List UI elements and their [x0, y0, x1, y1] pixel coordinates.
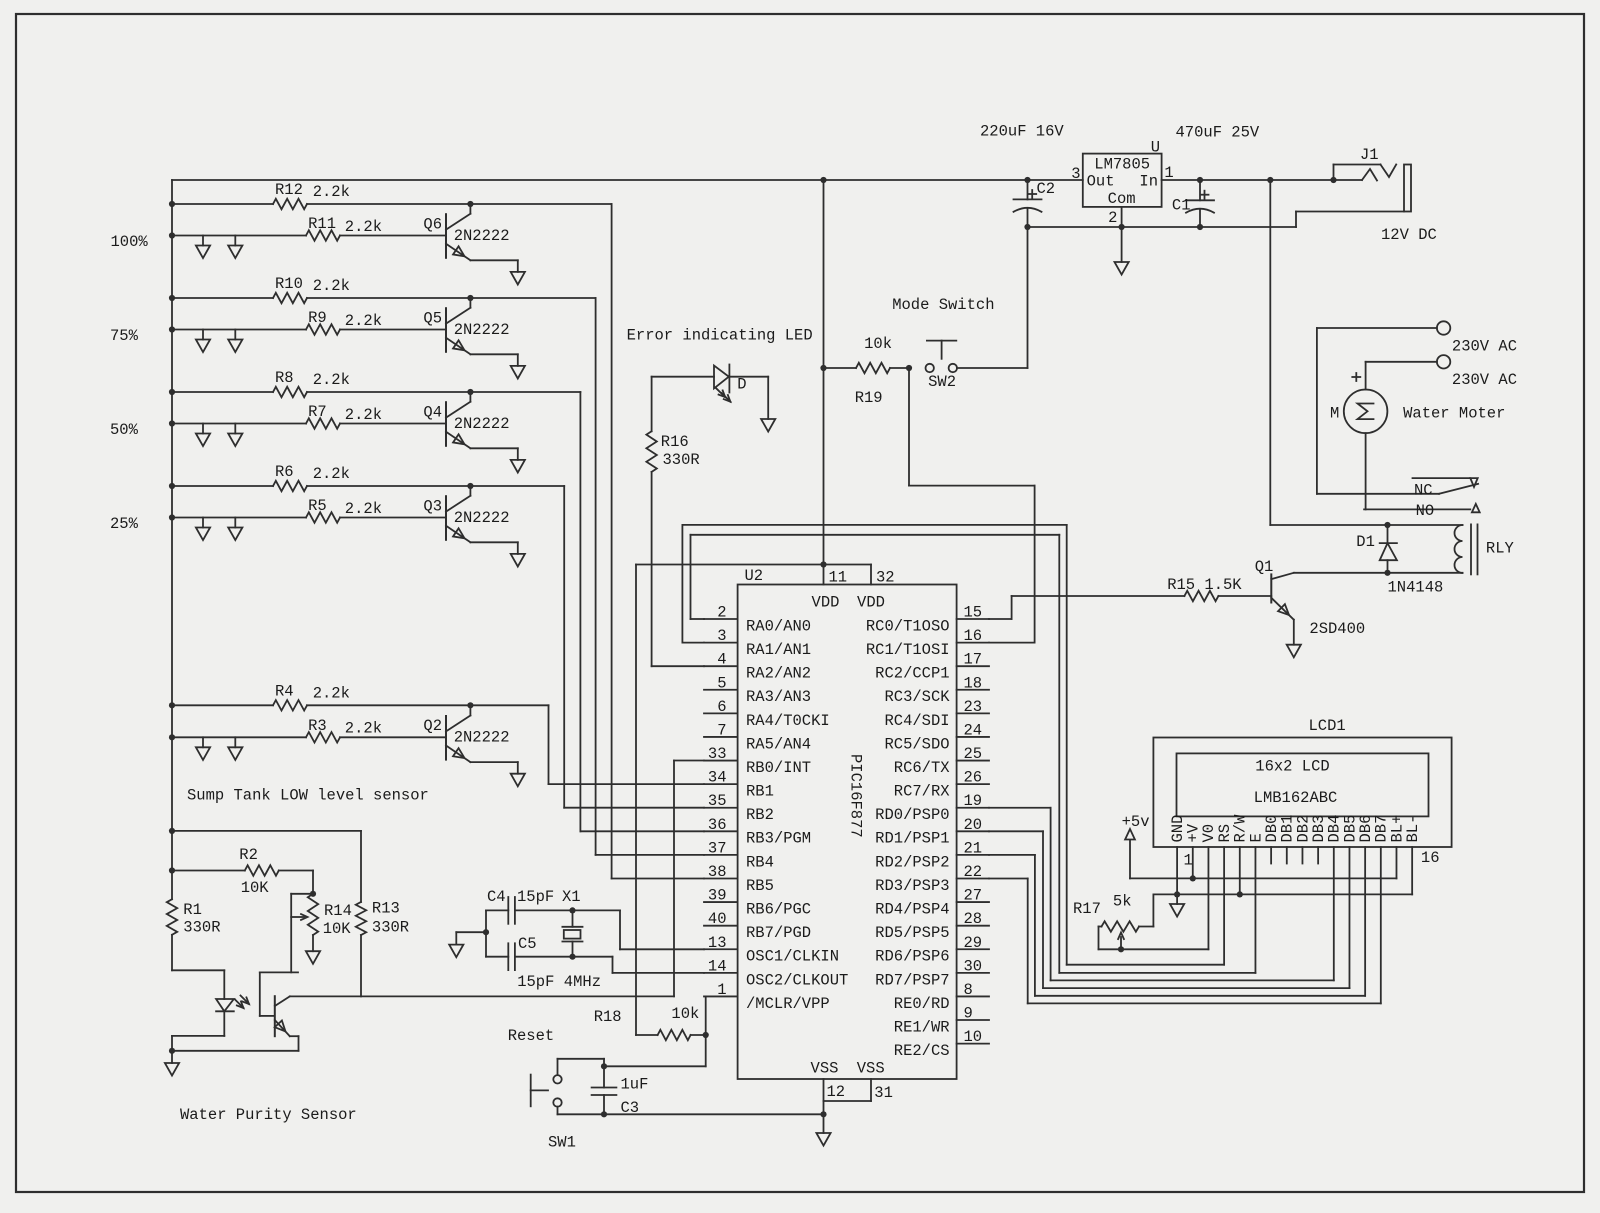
svg-text:31: 31: [874, 1084, 893, 1102]
svg-text:RC2/CCP1: RC2/CCP1: [875, 665, 949, 683]
svg-text:19: 19: [964, 792, 983, 810]
svg-text:16: 16: [1421, 849, 1440, 867]
svg-text:Error indicating LED: Error indicating LED: [627, 327, 813, 345]
svg-text:28: 28: [964, 910, 983, 928]
svg-text:10: 10: [964, 1028, 983, 1046]
svg-text:12: 12: [827, 1083, 846, 1101]
svg-text:RA0/AN0: RA0/AN0: [746, 617, 811, 635]
svg-text:2.2k: 2.2k: [313, 277, 350, 295]
svg-text:15pF: 15pF: [517, 888, 554, 906]
svg-text:U2: U2: [745, 567, 764, 585]
svg-text:RC4/SDI: RC4/SDI: [884, 712, 949, 730]
svg-text:RC5/SDO: RC5/SDO: [884, 735, 949, 753]
svg-text:U: U: [1151, 139, 1160, 157]
svg-text:12V DC: 12V DC: [1381, 226, 1437, 244]
svg-text:J1: J1: [1360, 146, 1379, 164]
svg-text:RD7/PSP7: RD7/PSP7: [875, 971, 949, 989]
svg-text:R5: R5: [308, 497, 327, 515]
svg-text:75%: 75%: [110, 327, 139, 345]
svg-text:OSC2/CLKOUT: OSC2/CLKOUT: [746, 971, 848, 989]
svg-text:36: 36: [708, 816, 727, 834]
svg-text:230V AC: 230V AC: [1452, 337, 1517, 355]
svg-text:Sump Tank LOW level sensor: Sump Tank LOW level sensor: [187, 787, 429, 805]
svg-text:Reset: Reset: [508, 1027, 555, 1045]
svg-text:R4: R4: [275, 683, 294, 701]
svg-text:50%: 50%: [110, 421, 139, 439]
svg-text:RD1/PSP1: RD1/PSP1: [875, 830, 949, 848]
svg-text:220uF 16V: 220uF 16V: [980, 123, 1064, 141]
svg-text:RB4: RB4: [746, 853, 774, 871]
svg-text:C1: C1: [1172, 197, 1191, 215]
svg-text:1: 1: [1164, 164, 1173, 182]
svg-text:VDD: VDD: [857, 593, 885, 611]
svg-text:SW2: SW2: [928, 373, 956, 391]
svg-text:27: 27: [964, 887, 983, 905]
svg-text:2.2k: 2.2k: [313, 465, 350, 483]
svg-text:In: In: [1139, 172, 1158, 190]
svg-text:230V AC: 230V AC: [1452, 371, 1517, 389]
svg-text:M: M: [1330, 405, 1339, 423]
svg-text:2N2222: 2N2222: [454, 415, 510, 433]
svg-text:1: 1: [1184, 852, 1193, 870]
svg-text:10k: 10k: [671, 1005, 699, 1023]
svg-text:16: 16: [964, 627, 983, 645]
svg-text:C4: C4: [487, 888, 506, 906]
svg-text:D1: D1: [1356, 533, 1375, 551]
svg-text:330R: 330R: [663, 451, 700, 469]
svg-text:2N2222: 2N2222: [454, 729, 510, 747]
svg-text:RE1/WR: RE1/WR: [894, 1018, 950, 1036]
svg-text:40: 40: [708, 910, 727, 928]
svg-text:26: 26: [964, 769, 983, 787]
svg-text:10K: 10K: [323, 920, 352, 938]
svg-text:Water Purity Sensor: Water Purity Sensor: [180, 1106, 357, 1124]
svg-text:Q1: Q1: [1255, 558, 1274, 576]
svg-text:5k: 5k: [1113, 893, 1132, 911]
svg-text:RE0/RD: RE0/RD: [894, 995, 950, 1013]
svg-text:21: 21: [964, 839, 983, 857]
svg-text:C2: C2: [1037, 180, 1056, 198]
svg-text:VSS: VSS: [857, 1060, 885, 1078]
svg-text:35: 35: [708, 792, 727, 810]
svg-text:LM7805: LM7805: [1094, 155, 1150, 173]
svg-text:2: 2: [1108, 209, 1117, 227]
svg-text:2N2222: 2N2222: [454, 321, 510, 339]
svg-text:RB5: RB5: [746, 877, 774, 895]
svg-text:RD2/PSP2: RD2/PSP2: [875, 853, 949, 871]
svg-text:RB2: RB2: [746, 806, 774, 824]
svg-text:1: 1: [717, 981, 726, 999]
svg-text:RD0/PSP0: RD0/PSP0: [875, 806, 949, 824]
svg-text:Q4: Q4: [423, 403, 442, 421]
svg-text:Q5: Q5: [423, 309, 442, 327]
svg-text:Com: Com: [1108, 190, 1136, 208]
svg-text:R8: R8: [275, 369, 294, 387]
svg-text:13: 13: [708, 934, 727, 952]
svg-text:2N2222: 2N2222: [454, 509, 510, 527]
svg-text:25%: 25%: [110, 515, 139, 533]
svg-text:R12: R12: [275, 181, 303, 199]
svg-text:23: 23: [964, 698, 983, 716]
svg-text:RC6/TX: RC6/TX: [894, 759, 951, 777]
svg-text:RA2/AN2: RA2/AN2: [746, 665, 811, 683]
svg-text:25: 25: [964, 745, 983, 763]
svg-text:2.2k: 2.2k: [313, 685, 350, 703]
svg-text:18: 18: [964, 674, 983, 692]
svg-text:30: 30: [964, 957, 983, 975]
svg-text:RB7/PGD: RB7/PGD: [746, 924, 811, 942]
svg-text:10k: 10k: [864, 335, 892, 353]
svg-text:R6: R6: [275, 463, 294, 481]
svg-text:33: 33: [708, 745, 727, 763]
svg-text:6: 6: [717, 698, 726, 716]
svg-text:LCD1: LCD1: [1309, 717, 1346, 735]
svg-text:2.2k: 2.2k: [345, 500, 382, 518]
svg-text:RD4/PSP4: RD4/PSP4: [875, 900, 949, 918]
svg-text:RLY: RLY: [1486, 540, 1515, 558]
svg-text:R17: R17: [1073, 900, 1101, 918]
svg-text:2SD400: 2SD400: [1309, 620, 1365, 638]
svg-text:16x2 LCD: 16x2 LCD: [1255, 758, 1329, 776]
svg-text:RC0/T1OSO: RC0/T1OSO: [866, 617, 950, 635]
svg-text:2.2k: 2.2k: [345, 218, 382, 236]
svg-text:Water Moter: Water Moter: [1403, 405, 1505, 423]
svg-text:R7: R7: [308, 403, 327, 421]
svg-text:R18: R18: [594, 1008, 622, 1026]
svg-text:D: D: [737, 376, 746, 394]
svg-text:2.2k: 2.2k: [313, 371, 350, 389]
svg-text:29: 29: [964, 934, 983, 952]
svg-text:Mode Switch: Mode Switch: [892, 296, 994, 314]
svg-text:RC3/SCK: RC3/SCK: [884, 688, 950, 706]
svg-text:/MCLR/VPP: /MCLR/VPP: [746, 995, 830, 1013]
svg-text:38: 38: [708, 863, 727, 881]
svg-text:Q3: Q3: [423, 497, 442, 515]
svg-text:R9: R9: [308, 309, 327, 327]
svg-text:100%: 100%: [111, 233, 149, 251]
svg-text:RD5/PSP5: RD5/PSP5: [875, 924, 949, 942]
svg-text:LMB162ABC: LMB162ABC: [1254, 789, 1338, 807]
svg-text:RB1: RB1: [746, 783, 774, 801]
svg-text:RA1/AN1: RA1/AN1: [746, 641, 811, 659]
svg-text:C3: C3: [621, 1099, 640, 1117]
svg-text:2.2k: 2.2k: [345, 312, 382, 330]
svg-text:4MHz: 4MHz: [564, 973, 601, 991]
svg-text:R15 1.5K: R15 1.5K: [1167, 576, 1242, 594]
svg-text:NO: NO: [1416, 502, 1435, 520]
svg-text:RB0/INT: RB0/INT: [746, 759, 811, 777]
svg-text:PIC16F877: PIC16F877: [847, 754, 865, 838]
svg-text:10K: 10K: [241, 879, 270, 897]
svg-text:R13: R13: [372, 900, 400, 918]
svg-text:R14: R14: [324, 902, 352, 920]
svg-text:8: 8: [964, 981, 973, 999]
svg-text:9: 9: [964, 1005, 973, 1023]
svg-text:Out: Out: [1087, 172, 1115, 190]
svg-text:15pF: 15pF: [517, 973, 554, 991]
svg-text:OSC1/CLKIN: OSC1/CLKIN: [746, 948, 839, 966]
svg-text:2: 2: [717, 604, 726, 622]
svg-text:39: 39: [708, 887, 727, 905]
svg-text:5: 5: [717, 674, 726, 692]
svg-text:4: 4: [717, 651, 726, 669]
svg-text:RA5/AN4: RA5/AN4: [746, 735, 811, 753]
svg-text:2N2222: 2N2222: [454, 227, 510, 245]
svg-text:R3: R3: [308, 717, 327, 735]
svg-text:VSS: VSS: [811, 1060, 839, 1078]
svg-text:15: 15: [964, 604, 983, 622]
svg-text:330R: 330R: [183, 919, 220, 937]
svg-text:NC: NC: [1414, 482, 1433, 500]
svg-text:R1: R1: [183, 901, 202, 919]
svg-text:SW1: SW1: [548, 1134, 576, 1152]
svg-text:Q2: Q2: [423, 717, 442, 735]
svg-text:RD3/PSP3: RD3/PSP3: [875, 877, 949, 895]
svg-text:BL-: BL-: [1404, 815, 1422, 843]
svg-text:R16: R16: [661, 433, 689, 451]
svg-text:2.2k: 2.2k: [313, 183, 350, 201]
svg-text:17: 17: [964, 651, 983, 669]
svg-text:1N4148: 1N4148: [1388, 579, 1444, 597]
svg-text:RC1/T1OSI: RC1/T1OSI: [866, 641, 950, 659]
svg-text:34: 34: [708, 769, 727, 787]
svg-text:RE2/CS: RE2/CS: [894, 1042, 950, 1060]
svg-text:RA4/T0CKI: RA4/T0CKI: [746, 712, 830, 730]
svg-text:470uF 25V: 470uF 25V: [1176, 124, 1260, 142]
svg-text:37: 37: [708, 839, 727, 857]
svg-text:RC7/RX: RC7/RX: [894, 783, 951, 801]
svg-text:20: 20: [964, 816, 983, 834]
svg-text:22: 22: [964, 863, 983, 881]
svg-text:2.2k: 2.2k: [345, 720, 382, 738]
svg-text:24: 24: [964, 721, 983, 739]
svg-text:R11: R11: [308, 215, 336, 233]
svg-text:VDD: VDD: [812, 593, 840, 611]
svg-text:330R: 330R: [372, 919, 409, 937]
svg-text:RB6/PGC: RB6/PGC: [746, 900, 811, 918]
svg-text:7: 7: [717, 721, 726, 739]
svg-text:2.2k: 2.2k: [345, 406, 382, 424]
svg-text:R10: R10: [275, 275, 303, 293]
svg-text:R2: R2: [239, 846, 258, 864]
svg-text:3: 3: [1071, 165, 1080, 183]
svg-text:14: 14: [708, 957, 727, 975]
svg-text:+5v: +5v: [1122, 813, 1150, 831]
svg-text:RD6/PSP6: RD6/PSP6: [875, 948, 949, 966]
svg-text:1uF: 1uF: [621, 1076, 649, 1094]
svg-text:X1: X1: [562, 888, 581, 906]
svg-text:R19: R19: [855, 389, 883, 407]
svg-text:C5: C5: [518, 935, 537, 953]
svg-text:3: 3: [717, 627, 726, 645]
svg-text:Q6: Q6: [423, 215, 442, 233]
svg-text:RB3/PGM: RB3/PGM: [746, 830, 811, 848]
svg-text:RA3/AN3: RA3/AN3: [746, 688, 811, 706]
